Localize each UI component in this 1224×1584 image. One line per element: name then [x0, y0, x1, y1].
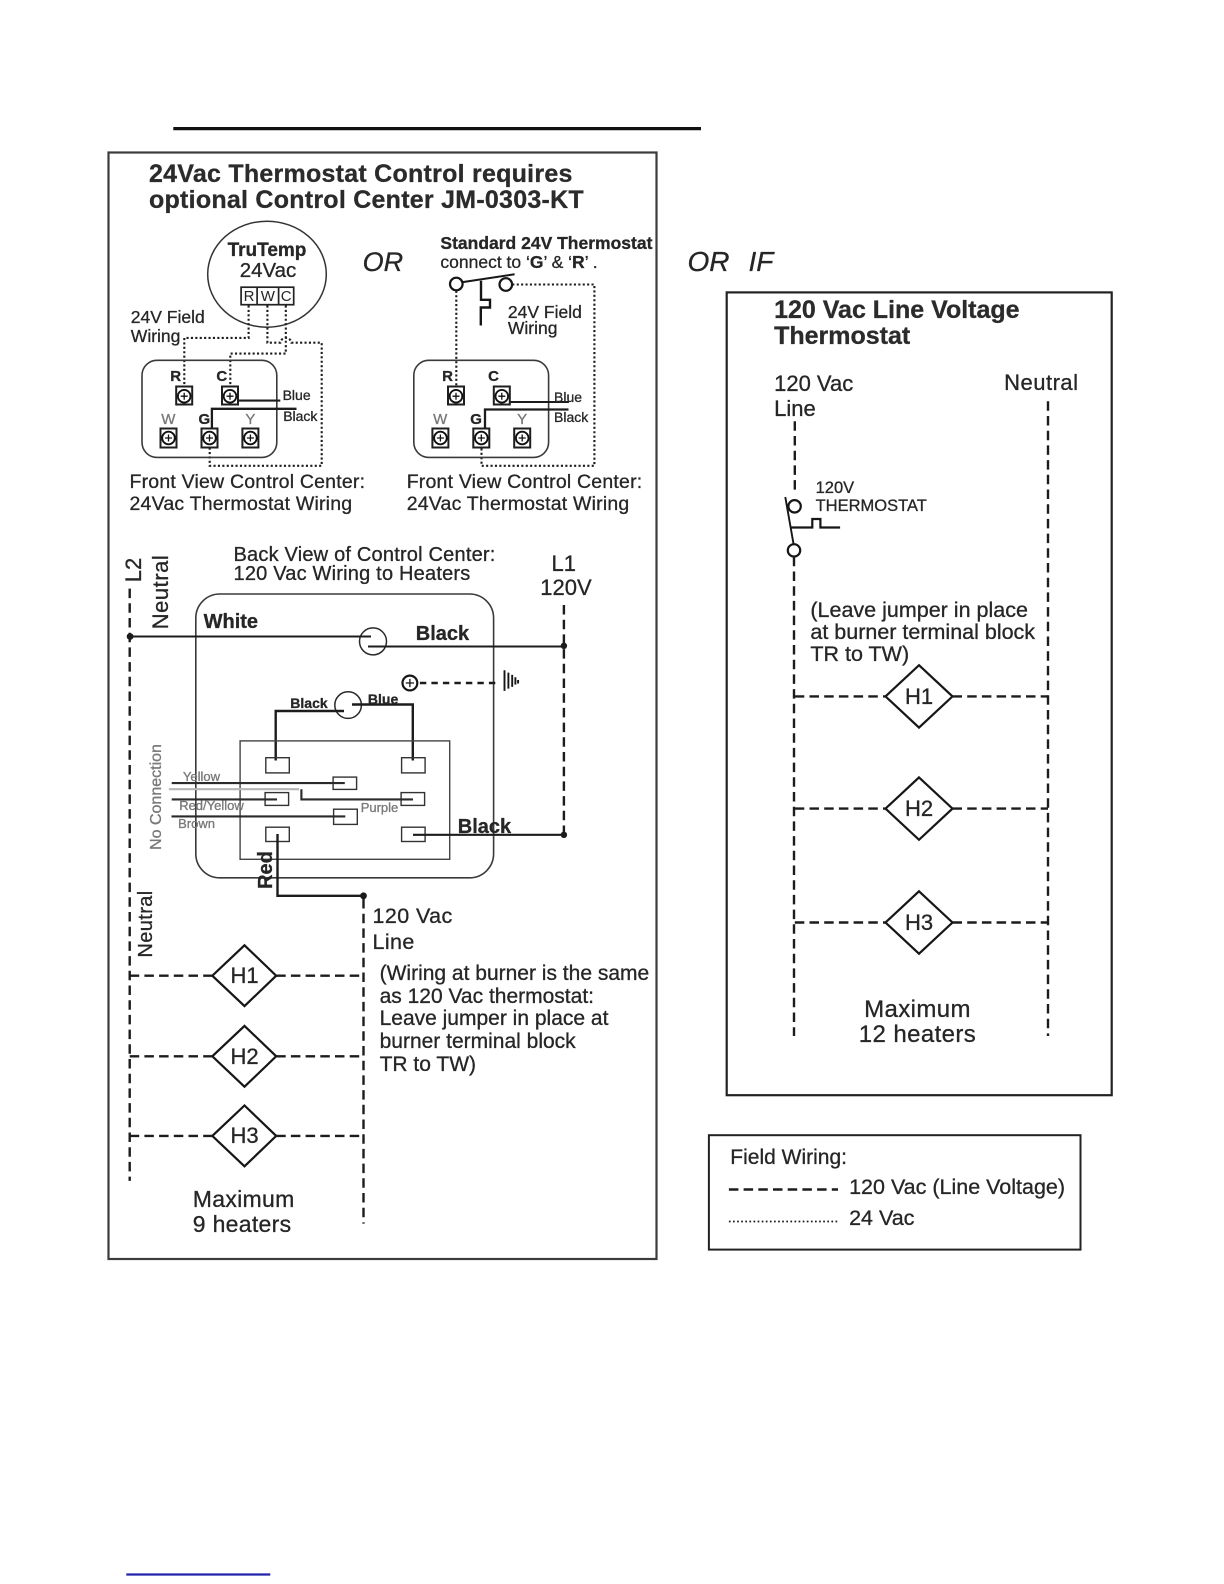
label No Connection — [149, 744, 165, 850]
terminal W (right block) — [432, 429, 448, 448]
legend label 120 Vac (Line Voltage) — [849, 1177, 1065, 1199]
bottom blue rule — [126, 1573, 270, 1575]
wire H3 row dashed (left box) — [130, 1135, 364, 1137]
brown wire — [172, 815, 346, 817]
wire nut 2 (black/blue) — [335, 692, 362, 719]
lug row3 left (red/yellow) — [265, 793, 289, 806]
node label 120 Vac Line (right box) — [774, 372, 853, 421]
wire label Black (left block) — [283, 409, 317, 423]
node label L1 — [552, 553, 576, 575]
junction dot L2 — [127, 633, 134, 640]
RWC terminal box — [241, 287, 294, 305]
wire C 24V dotted (thermostat C to C terminal) — [230, 306, 285, 387]
heater label H2 (right box) — [905, 798, 933, 820]
ground dashed wire — [420, 682, 499, 684]
wire label Blue (nut) — [368, 692, 398, 706]
wire label Blue (right block) — [554, 390, 582, 404]
caption front view (right) — [407, 472, 643, 516]
24V thermostat bimetal element — [481, 281, 490, 326]
control center front view (right) outline — [414, 360, 549, 457]
wire Blue (left block, from C terminal) — [238, 400, 280, 402]
terminal Y (right block) — [514, 429, 530, 448]
wire W 24V dotted (thermostat W to G terminal, with hop) — [210, 306, 322, 466]
node label 120 Vac Line — [373, 903, 453, 955]
wire label Red/Yellow — [179, 799, 244, 812]
heater terminal strip box — [240, 741, 450, 859]
120V thermostat blade — [785, 497, 793, 544]
terminal label Y (left block) — [245, 412, 255, 427]
wire label Blue (left block) — [283, 388, 311, 402]
wire Blue (right block, from C terminal) — [510, 401, 569, 403]
pin label W (thermostat) — [261, 289, 275, 304]
lug row5 right (black out) — [402, 827, 426, 841]
junction dot 120vac line — [360, 892, 367, 899]
wire label Purple — [361, 801, 399, 814]
black wire to L1 — [368, 646, 564, 648]
legend dotted sample (24 Vac) — [729, 1221, 838, 1223]
heater H3 (right box) — [886, 891, 953, 953]
heater H2 (right box) — [886, 777, 953, 839]
120 Vac line dashed (left box) — [362, 899, 364, 1224]
wire H3 row dashed (right box) — [795, 921, 1048, 923]
wire label Black (nut) — [290, 696, 327, 710]
terminal label W (right block) — [433, 412, 447, 427]
left panel border — [109, 153, 657, 1260]
lug row1 left (black) — [266, 758, 290, 773]
terminal label C (right block) — [488, 369, 499, 384]
L1 dashed line — [563, 605, 565, 835]
label TruTemp — [228, 241, 307, 260]
title — [149, 162, 584, 214]
wire label Black (lower) — [458, 817, 511, 837]
terminal label Y (right block) — [517, 412, 527, 427]
black wire (nut 2 to strip) — [276, 711, 344, 761]
heater H1 (right box) — [886, 665, 953, 727]
wire H1 row dashed (right box) — [795, 695, 1048, 697]
lug row2 center (yellow) — [333, 777, 357, 789]
wire R 24V dotted (left thermostat to R terminal) — [184, 306, 248, 387]
lug row4 center (brown) — [334, 809, 358, 824]
terminal label R (right block) — [442, 369, 453, 384]
thermostat TruTemp ellipse — [208, 221, 327, 327]
120V thermostat contacts — [788, 500, 801, 557]
heater label H3 (right box) — [905, 912, 933, 934]
heater H3 (left box) — [212, 1106, 276, 1167]
black wire lower to L1 — [413, 834, 564, 836]
label 24Vac — [240, 261, 297, 282]
lug row1 right (blue) — [402, 758, 426, 773]
label OR IF — [688, 248, 774, 276]
lug row5 left (red) — [266, 827, 290, 841]
terminal label W (left block) — [161, 412, 175, 427]
wire R 24V dotted (right thermostat to R terminal) — [455, 291, 457, 387]
pin label R (thermostat) — [244, 289, 255, 304]
wire Black (left block, to G terminal) — [212, 409, 297, 429]
terminal label C (left block) — [216, 369, 227, 384]
label connect to G and R — [440, 254, 597, 272]
node label Neutral (lower) — [136, 890, 156, 957]
node label Neutral (right box) — [1004, 372, 1078, 394]
label OR — [363, 249, 404, 276]
note maximum 9 heaters — [193, 1187, 295, 1236]
ground screw terminal — [403, 676, 418, 691]
terminal label G (left block) — [198, 412, 210, 427]
right panel title — [774, 297, 1019, 350]
wire label Black (upper) — [416, 624, 469, 644]
note maximum 12 heaters — [859, 997, 976, 1048]
caption back view — [234, 546, 496, 584]
control center front view (left) outline — [142, 360, 277, 457]
wire label Brown — [178, 817, 215, 830]
top rule — [173, 127, 701, 130]
pin label C (thermostat) — [281, 289, 292, 304]
label 120V THERMOSTAT — [816, 479, 927, 516]
label Standard 24V Thermostat — [440, 235, 652, 253]
wire Black (right block, to G terminal) — [485, 410, 569, 429]
heater label H1 (right box) — [905, 686, 933, 708]
junction dot L1 lower — [561, 832, 567, 838]
node label 120V — [540, 577, 591, 599]
terminal label R (left block) — [170, 369, 181, 384]
L2 neutral dashed line — [128, 589, 130, 1181]
120 Vac line dashed (right box lower) — [793, 557, 795, 1036]
field wiring legend box — [709, 1135, 1081, 1249]
right panel border — [727, 292, 1112, 1095]
24V thermostat switch contacts — [450, 278, 512, 291]
heater H2 (left box) — [212, 1026, 276, 1087]
note wiring at burner — [380, 963, 650, 1076]
purple wire — [301, 789, 413, 799]
terminal G (right block) — [473, 429, 489, 448]
neutral dashed line (right box) — [1047, 401, 1049, 1036]
terminal Y (left block) — [242, 429, 258, 448]
legend label 24 Vac — [849, 1208, 914, 1230]
wire H2 row dashed (left box) — [130, 1055, 364, 1057]
wire H1 row dashed (left box) — [130, 975, 364, 977]
blue wire (nut 2 to strip) — [352, 705, 413, 761]
red/yellow wire — [172, 798, 277, 800]
heater label H1 (left box) — [230, 965, 258, 987]
heater label H3 (left box) — [230, 1125, 258, 1147]
terminal C (right block) — [494, 387, 510, 405]
120V thermostat bimetal element — [790, 519, 840, 528]
legend dashed sample (120 Vac) — [729, 1188, 838, 1190]
wire nut 1 (white/black) — [360, 628, 387, 655]
wire label Yellow — [183, 770, 220, 783]
wire label White — [204, 612, 258, 632]
24V thermostat switch blade — [462, 274, 515, 282]
wire H2 row dashed (right box) — [795, 807, 1048, 809]
no-connection wire — [169, 788, 299, 790]
yellow wire — [172, 782, 345, 784]
label 24V Field Wiring (left) — [131, 308, 205, 346]
back view enclosure — [196, 594, 494, 878]
legend title Field Wiring — [730, 1147, 847, 1168]
wire label Red — [256, 851, 276, 889]
label 24V Field Wiring (right) — [508, 304, 582, 337]
terminal W (left block) — [161, 429, 177, 448]
chassis ground symbol — [505, 670, 519, 691]
caption front view (left) — [130, 472, 366, 516]
lug row3 right (purple) — [401, 793, 425, 806]
white wire — [130, 636, 371, 638]
wire label Black (right block) — [554, 410, 588, 424]
terminal R (right block) — [448, 387, 464, 405]
node label Neutral (upper) — [150, 555, 172, 629]
red wire — [278, 834, 364, 896]
junction dot L1 upper — [561, 643, 567, 649]
note leave jumper — [810, 599, 1035, 666]
heater H1 (left box) — [212, 945, 276, 1006]
terminal R (left block) — [176, 387, 192, 405]
terminal label G (right block) — [470, 412, 482, 427]
wire G 24V dotted loop (right thermostat to G terminal) — [482, 285, 595, 466]
terminal C (left block) — [222, 387, 238, 405]
node label L2 — [123, 557, 145, 581]
terminal G (left block) — [202, 429, 218, 448]
120 Vac line dashed (right box upper) — [794, 421, 796, 494]
heater label H2 (left box) — [230, 1046, 258, 1068]
